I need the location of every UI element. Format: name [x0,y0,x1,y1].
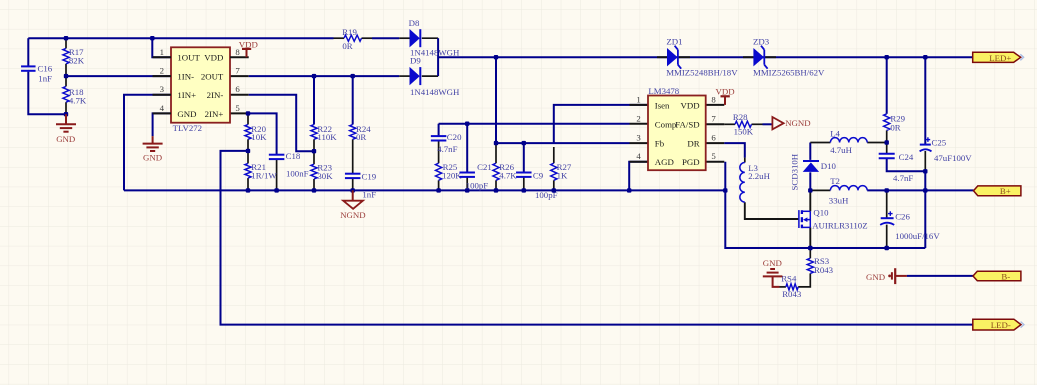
TLV272 right pin stubs [230,56,249,58]
power VDD at TLV272 pin8 [246,49,248,57]
resistor R26 [493,163,499,180]
svg-text:D8: D8 [409,18,420,28]
regulator U LM3478 [648,96,706,171]
svg-text:GND: GND [177,109,196,119]
svg-text:D10: D10 [821,161,837,171]
wire C20-R25 link [438,140,440,163]
svg-text:2OUT: 2OUT [201,71,224,81]
svg-text:DR: DR [687,138,699,148]
resistor R29 [884,114,890,131]
svg-text:R19: R19 [342,27,357,37]
ground NGND arrow at R28 [772,117,783,129]
svg-text:4.7uH: 4.7uH [830,145,852,155]
svg-text:7: 7 [711,114,716,124]
resistor RS4 [786,284,798,290]
op-amp U TLV272 [171,47,230,122]
svg-text:C25: C25 [932,138,947,148]
svg-text:C16: C16 [38,63,53,73]
svg-text:100pF: 100pF [466,180,489,190]
svg-text:B+: B+ [1000,186,1011,196]
svg-text:1IN+: 1IN+ [177,90,196,100]
wire D10 column [809,172,811,190]
transistor Q10 [798,210,800,228]
svg-text:5: 5 [711,151,716,161]
svg-text:GND: GND [763,258,782,268]
svg-text:T2: T2 [830,176,840,186]
junction dots [64,36,68,40]
svg-text:2IN+: 2IN+ [205,109,224,119]
svg-text:3: 3 [160,84,165,94]
svg-text:MMIZ5265BH/62V: MMIZ5265BH/62V [753,67,825,77]
svg-text:5: 5 [235,103,240,113]
svg-text:L4: L4 [830,128,840,138]
port B+ [974,186,1021,196]
zener diode ZD3 [743,56,753,58]
svg-text:6: 6 [711,133,716,143]
capacitor C25 electrolytic [920,144,931,146]
power VDD at LM3478 pin8 [724,96,726,105]
resistor R28 [735,121,752,127]
svg-text:C19: C19 [362,172,377,182]
svg-text:VDD: VDD [716,86,735,96]
wire pin2 net [66,75,171,77]
wire pin1 drop [152,38,171,57]
svg-text:VDD: VDD [204,53,223,63]
wire R24 column [352,76,354,124]
wire R27 leads [553,147,555,163]
wire C26 leads [886,190,888,218]
ground GND at R18 [65,114,67,124]
capacitor C19 [345,173,361,175]
capacitor C20 [431,135,447,137]
wire LED- net [221,151,973,325]
svg-text:1: 1 [636,94,640,104]
capacitor C9 [516,172,532,174]
wire D9 leads [399,75,409,77]
svg-text:1OUT: 1OUT [177,53,200,63]
svg-text:LED-: LED- [991,320,1011,330]
svg-text:C9: C9 [533,171,544,181]
svg-text:C18: C18 [286,151,301,161]
wire RS3 leads [809,248,811,258]
svg-text:47uF100V: 47uF100V [934,153,972,163]
wire C25 node drop to B+ rail [924,171,926,248]
wire R20 leads [247,113,249,124]
svg-text:RS4: RS4 [781,274,797,284]
wire R19 leads [334,37,345,39]
svg-text:120K: 120K [442,171,462,181]
wire L3 to Q10 gate [745,202,799,219]
svg-text:C21: C21 [477,162,492,172]
svg-text:4: 4 [160,103,165,113]
wire C18 bottom lead [276,159,278,190]
wire R26 leads [495,143,497,163]
wire B+ rail [810,189,830,191]
svg-text:Isen: Isen [655,100,670,110]
svg-text:NGND: NGND [340,210,365,220]
svg-text:1IN-: 1IN- [177,71,194,81]
wire bus NGND rail [124,189,725,191]
wire LED+ rail [438,56,973,58]
svg-text:GND: GND [143,152,162,162]
capacitor C26 electrolytic [881,217,894,219]
wire C9 column [523,143,525,172]
svg-text:TLV272: TLV272 [173,123,203,133]
svg-text:2: 2 [160,66,164,76]
ground GND at TLV272 pin4 [152,136,154,143]
capacitor C16 [21,65,36,67]
svg-text:1nF: 1nF [362,189,376,199]
wire R17 leads [65,38,67,48]
svg-text:0R: 0R [890,122,900,132]
svg-text:150K: 150K [734,126,754,136]
wire C19 bottom lead [352,178,354,190]
port B- [973,271,1021,281]
svg-text:SCD310H: SCD310H [789,153,799,190]
svg-text:AGD: AGD [655,157,674,167]
svg-text:R043: R043 [814,265,834,275]
wire D8 leads [399,37,409,39]
resistor R24 [350,125,356,140]
diode D8 [410,29,420,47]
wire Q10 drain riser [809,190,811,211]
svg-text:2.2uH: 2.2uH [748,171,770,181]
svg-text:R043: R043 [782,289,802,299]
resistor R21 [245,163,251,178]
svg-text:C20: C20 [447,132,462,142]
wire R21 leads [247,151,249,164]
wire pin3 net to bus [124,95,171,191]
svg-text:LM3478: LM3478 [648,86,679,96]
ground GND at RS4 (inverted) [763,275,783,277]
svg-text:Q10: Q10 [813,208,829,218]
svg-text:4.7K: 4.7K [69,96,87,106]
svg-text:ZD3: ZD3 [753,37,770,47]
svg-text:R28: R28 [733,112,748,122]
inductor L4 [830,138,867,143]
capacitor C18 [269,154,285,156]
svg-text:C24: C24 [899,152,914,162]
wire top net (1OUT feedback) [28,37,333,39]
svg-text:110K: 110K [317,132,337,142]
wire D8-D9 cathode join [437,38,439,76]
diode D9 [410,67,420,85]
wire R22 column [313,76,315,124]
svg-text:B-: B- [1001,271,1010,281]
resistor R19 [344,35,362,41]
wire Q10 source drop [809,227,811,248]
wire L4 line [810,142,830,144]
svg-text:NGND: NGND [785,118,810,128]
wire DR net to L3 [724,143,745,158]
svg-text:33uH: 33uH [829,195,849,205]
svg-text:3: 3 [636,133,641,143]
zener diode ZD1 [657,56,667,58]
wire C25 column [924,57,926,144]
svg-text:1000uF/16V: 1000uF/16V [895,231,940,241]
ground NGND below C19 [352,190,354,200]
svg-text:ZD1: ZD1 [666,37,682,47]
diode D10 SCD310H [803,160,819,162]
svg-text:2: 2 [636,114,640,124]
svg-text:30K: 30K [317,171,333,181]
port LED- [973,319,1021,330]
port LED+ [973,52,1021,62]
svg-text:GND: GND [56,134,75,144]
svg-text:MMIZ5248BH/18V: MMIZ5248BH/18V [666,67,738,77]
wire R23 leads [313,151,315,164]
svg-text:100pF: 100pF [535,190,558,200]
svg-text:VDD: VDD [239,39,258,49]
svg-text:10K: 10K [251,132,267,142]
svg-text:1: 1 [160,47,164,57]
inductor T2 [830,186,867,191]
svg-text:AUIRLR3110Z: AUIRLR3110Z [812,220,867,230]
svg-text:1R/1W: 1R/1W [251,170,277,180]
svg-text:0R: 0R [356,132,366,142]
wire rail B Fb net [496,142,630,144]
wire RS4 left lead to GND [780,286,786,288]
wire pin5 node [230,112,248,114]
wire pin4 to GND [153,113,171,136]
resistor R27 [551,163,557,180]
resistor R20 [245,125,251,140]
svg-text:4.7nF: 4.7nF [893,173,913,183]
resistor R25 [436,163,442,180]
wire B- net [895,275,907,277]
svg-text:FA/SD: FA/SD [675,120,699,130]
svg-text:C26: C26 [895,212,910,222]
svg-text:1N4148WGH: 1N4148WGH [410,87,460,97]
svg-text:2IN-: 2IN- [207,90,224,100]
wire Isen net [554,105,648,143]
svg-text:4.7nF: 4.7nF [437,144,457,154]
wire AGD riser [629,162,648,191]
svg-text:Comp: Comp [655,120,677,130]
wire R29 column [886,57,888,114]
wire rail A comp net [439,123,630,125]
wire PGD drop and source rail [725,162,925,248]
resistor R22 [311,125,317,140]
svg-text:LED+: LED+ [989,53,1011,63]
svg-text:4.7K: 4.7K [499,171,517,181]
capacitor C21 [459,172,475,174]
svg-text:82K: 82K [69,56,85,66]
svg-text:100nF: 100nF [286,168,309,178]
wire C21 column [466,124,468,173]
resistor R18 [63,86,69,102]
svg-text:D9: D9 [410,56,421,66]
svg-text:0R: 0R [342,41,352,51]
svg-text:PGD: PGD [682,157,700,167]
wire R18 leads [65,76,67,86]
svg-text:VDD: VDD [681,100,700,110]
resistor R23 [311,164,317,179]
svg-text:7: 7 [235,66,240,76]
wire sense drop to Fb rail [495,57,497,143]
wire R28 net to NGND [724,123,735,125]
svg-text:6: 6 [235,84,240,94]
inductor L3 [740,163,745,203]
wire C16 branch [27,38,29,66]
svg-text:4: 4 [636,151,641,161]
resistor RS3 [807,258,813,273]
svg-text:Fb: Fb [655,138,665,148]
wire pin7 2OUT net [230,75,249,77]
svg-text:1nF: 1nF [38,73,52,83]
resistor R17 [63,48,69,63]
wire LM3478 right stubs [706,104,725,106]
wire pin6 2IN- net [230,94,249,96]
TLV272 left pin stubs [153,56,172,58]
capacitor C24 [879,153,895,155]
svg-text:1K: 1K [557,171,568,181]
svg-text:GND: GND [866,272,885,282]
wire C24 leads [886,143,888,154]
